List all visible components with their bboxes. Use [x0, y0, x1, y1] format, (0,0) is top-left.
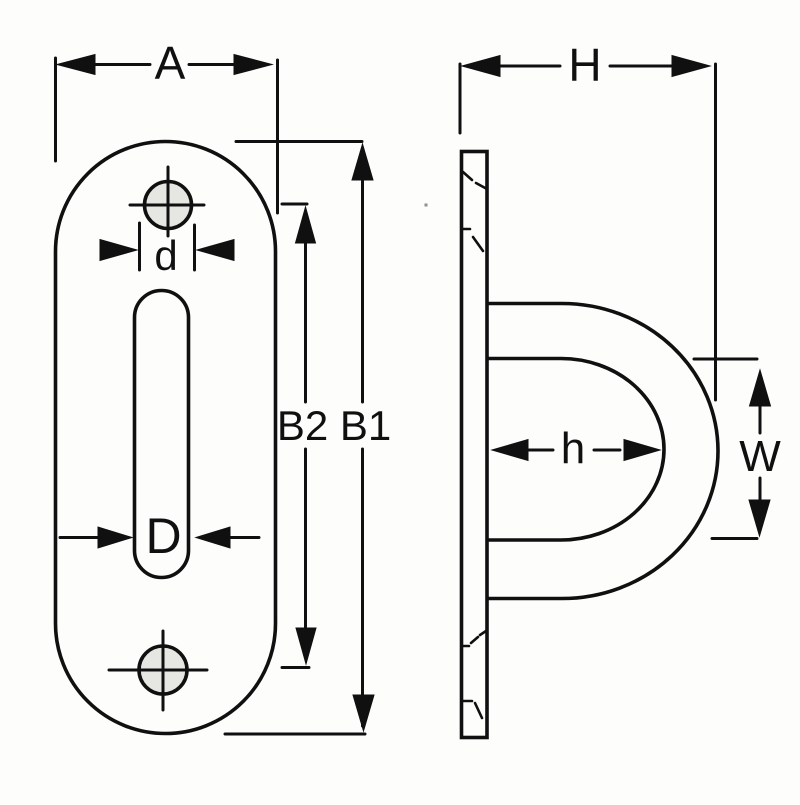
- svg-text:A: A: [155, 37, 186, 89]
- svg-text:B1: B1: [340, 402, 391, 449]
- svg-text:W: W: [739, 432, 781, 481]
- svg-text:D: D: [145, 508, 181, 564]
- svg-text:d: d: [154, 232, 177, 279]
- svg-text:h: h: [561, 424, 585, 473]
- svg-text:H: H: [568, 39, 601, 91]
- svg-text:B2: B2: [277, 402, 328, 449]
